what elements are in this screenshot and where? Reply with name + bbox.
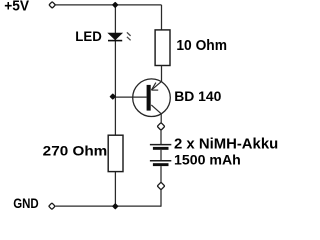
- LED D1: [108, 32, 131, 40]
- wire right branch down to resistor R1: [161, 5, 163, 31]
- terminal pad battery bottom: [157, 182, 165, 190]
- svg-text:2 x NiMH-Akku: 2 x NiMH-Akku: [174, 137, 278, 153]
- svg-text:10 Ohm: 10 Ohm: [176, 38, 227, 54]
- wire terminal to battery: [160, 130, 162, 144]
- terminal pad +5V: [49, 2, 56, 9]
- wire battery bottom to ground rail: [160, 190, 162, 207]
- svg-text:1500 mAh: 1500 mAh: [174, 153, 241, 169]
- wire LED branch vertical: [114, 5, 116, 136]
- wire 270 Ohm to ground rail: [114, 172, 116, 207]
- resistor R1 10 Ohm: [155, 30, 170, 66]
- svg-text:LED: LED: [75, 29, 102, 44]
- junction dot base node: [109, 93, 116, 100]
- junction dot ground node: [112, 203, 119, 210]
- svg-text:270 Ohm: 270 Ohm: [43, 143, 108, 159]
- wire between cells: [160, 150, 162, 160]
- wire battery to bottom terminal: [160, 166, 162, 182]
- terminal pad GND: [49, 203, 56, 210]
- svg-text:+5V: +5V: [4, 0, 29, 14]
- terminal pad battery top: [157, 123, 165, 131]
- wire bottom ground rail: [56, 205, 162, 207]
- wire resistor R1 to transistor: [161, 66, 163, 82]
- wire transistor collector to battery terminal: [160, 114, 162, 123]
- junction dot top node: [112, 2, 119, 9]
- battery B1 cell 2: [150, 161, 171, 166]
- svg-text:BD 140: BD 140: [174, 88, 221, 104]
- svg-text:GND: GND: [13, 196, 39, 210]
- wire base from LED node: [115, 96, 146, 98]
- wire top rail +5V: [56, 4, 162, 6]
- resistor R2 270 Ohm: [108, 135, 123, 171]
- battery B1 cell 1: [150, 145, 171, 150]
- transistor Q1 BD 140: [133, 79, 171, 117]
